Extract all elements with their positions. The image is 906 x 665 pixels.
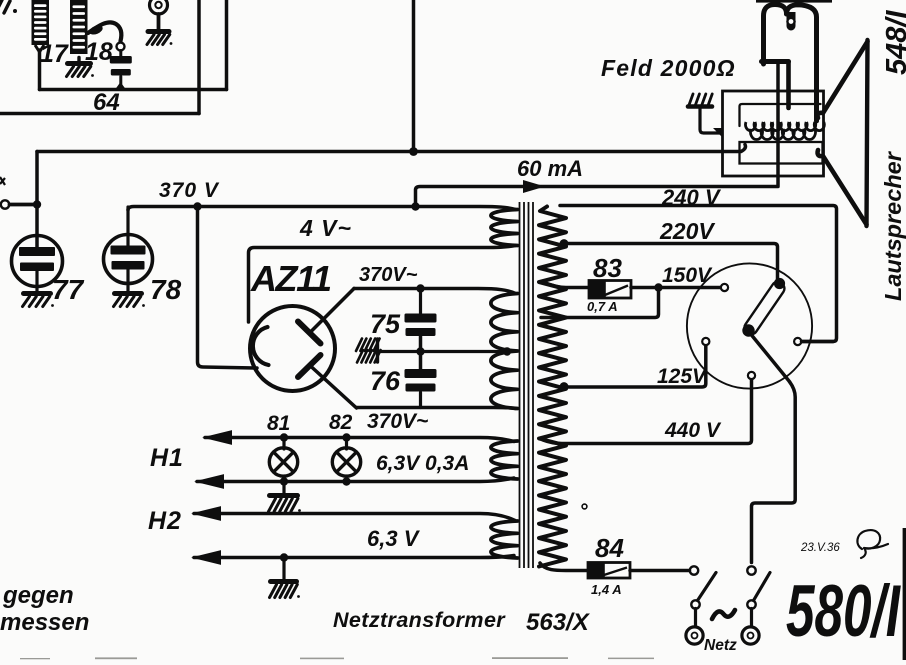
wire fuse 83 to 150V terminal <box>631 286 721 290</box>
terminal node above capacitor 64 <box>117 43 125 51</box>
terminal circle on yoke <box>787 18 794 25</box>
svg-text:H2: H2 <box>148 507 182 535</box>
node junction cap75 <box>416 284 424 292</box>
speaker magnet pot rectangle <box>723 91 824 176</box>
wire filament lead left <box>198 207 258 369</box>
ring terminal left Netz <box>686 627 703 644</box>
svg-text:370 V: 370 V <box>159 179 220 202</box>
svg-text:563/X: 563/X <box>526 609 591 636</box>
wire heater line H2 bottom <box>194 556 514 558</box>
speaker cone <box>818 42 868 119</box>
svg-text:75: 75 <box>370 309 401 339</box>
svg-text:78: 78 <box>150 274 182 305</box>
svg-text:17: 17 <box>40 40 69 68</box>
wire heater line H2 top <box>194 514 515 521</box>
svg-text:84: 84 <box>595 533 624 563</box>
yoke inner leg <box>786 62 791 109</box>
wire curved lead from resistor 18 to capacitor 64 <box>88 22 121 41</box>
transformer core laminations <box>519 202 521 568</box>
wire 4V winding bottom lead to tube <box>249 246 516 323</box>
svg-text:AZ11: AZ11 <box>250 258 332 299</box>
wire 110V tap line <box>543 380 752 444</box>
chassis hatched symbol <box>356 339 362 352</box>
fuse 83 <box>589 281 631 299</box>
svg-text:81: 81 <box>267 412 290 435</box>
ground at field coil <box>689 94 693 105</box>
wire 220V tap line <box>564 244 778 280</box>
voltage selector plate circle <box>687 263 812 388</box>
terminal 125V <box>702 338 709 345</box>
node centre tap on winding <box>503 347 511 355</box>
svg-text:240 V: 240 V <box>661 185 722 210</box>
wire 240V tap line <box>560 206 837 342</box>
bottom edge remnant dashes <box>20 657 654 659</box>
ring terminal right Netz <box>742 627 759 644</box>
node ground tap H2 <box>280 553 288 561</box>
label ~ mains <box>712 610 735 619</box>
tiny terminal speck <box>582 504 587 509</box>
plus mark at left edge <box>0 177 5 185</box>
op-amp AZ11 tube envelope <box>250 306 335 391</box>
node junction at cap 77 <box>33 200 41 208</box>
svg-text:76: 76 <box>370 366 401 396</box>
wire 125V tap line <box>564 346 706 388</box>
svg-text:H1: H1 <box>150 444 184 472</box>
capacitor C64 <box>110 56 132 64</box>
node junction 60mA branch <box>411 202 419 210</box>
capacitor C77 electrolytic <box>12 236 63 287</box>
voice coil pocket <box>787 12 796 31</box>
wire 370V~ lower anode line <box>357 407 516 408</box>
switch pole left <box>691 600 699 608</box>
node 125V tap <box>560 382 569 391</box>
capacitor C78 electrolytic <box>126 207 129 248</box>
wire 370V line <box>128 207 516 211</box>
wire 60 mA branch <box>416 63 779 204</box>
yoke step bar <box>762 59 789 64</box>
switch input terminal <box>690 566 698 574</box>
terminal with ground top <box>150 0 168 14</box>
node lamp82 bottom <box>342 477 350 485</box>
svg-text:Netztransformer: Netztransformer <box>333 608 506 632</box>
node junction centre line <box>416 347 424 355</box>
wire return tap L <box>541 288 659 318</box>
wire inner vertical <box>197 0 201 114</box>
node lamp82 top <box>342 433 350 441</box>
terminal 110V <box>748 372 755 379</box>
winding HV 2x370V (left middle) <box>491 294 518 409</box>
filament cathode crescent <box>253 327 269 365</box>
svg-text:548/I: 548/I <box>881 10 906 75</box>
wire tap to fuse 83 <box>543 282 589 288</box>
anode lead lower diagonal <box>311 366 357 408</box>
svg-text:440 V: 440 V <box>664 419 722 442</box>
svg-text:125V: 125V <box>657 365 708 388</box>
anode lead upper diagonal <box>311 289 355 333</box>
anode bar upper <box>298 322 321 344</box>
field coil winding loops <box>746 122 756 131</box>
ground under H2 line <box>271 579 297 584</box>
svg-text:150V: 150V <box>662 264 713 287</box>
rotor contact dot <box>774 278 785 289</box>
wire ground stem to pot <box>700 108 721 133</box>
winding 6.3V (left bottom) <box>491 521 518 558</box>
anode bar lower <box>298 355 321 377</box>
top edge line remnant <box>756 0 832 3</box>
svg-text:4 V~: 4 V~ <box>299 215 352 241</box>
wire rotor tail to switch <box>752 335 796 563</box>
svg-text:6,3 V: 6,3 V <box>367 526 421 551</box>
svg-text:60 mA: 60 mA <box>517 156 583 181</box>
svg-text:82: 82 <box>329 411 353 434</box>
node lamp81 top <box>280 433 288 441</box>
border line bottom right <box>903 528 906 660</box>
svg-text:Feld 2000Ω: Feld 2000Ω <box>601 55 736 81</box>
resistor 18 <box>70 0 88 54</box>
wire heater line H1 top <box>205 438 514 442</box>
wire B+ line y=151 <box>37 145 746 152</box>
wire 370V~ upper anode line <box>354 289 516 294</box>
wire centre tap line <box>419 337 423 370</box>
svg-text:messen: messen <box>0 609 89 636</box>
wire box bottom line <box>40 88 227 92</box>
winding 4V~ (left top) <box>491 210 518 246</box>
switch pole right <box>747 566 755 574</box>
winding 6.3V 0.3A (left lower) <box>491 441 518 479</box>
wire box right vertical <box>225 0 229 90</box>
wire heater line H1 bottom <box>197 478 514 482</box>
svg-text:23.V.36: 23.V.36 <box>800 542 840 554</box>
terminal 240V return <box>794 338 801 345</box>
ground under C77 <box>24 291 51 296</box>
capacitor C76 <box>405 369 437 378</box>
wire bottom lead to fuse 84 <box>540 563 589 571</box>
svg-text:Lautsprecher: Lautsprecher <box>880 150 906 301</box>
svg-text:370V~: 370V~ <box>367 410 428 433</box>
svg-text:220V: 220V <box>659 218 715 244</box>
svg-text:gegen: gegen <box>2 582 74 609</box>
svg-text:0,7 A: 0,7 A <box>587 299 618 314</box>
node junction after fuse <box>654 283 662 291</box>
svg-text:6,3V 0,3A: 6,3V 0,3A <box>376 452 469 475</box>
svg-text:580/I: 580/I <box>786 571 901 652</box>
ground under C78 <box>115 291 142 296</box>
svg-text:1,4 A: 1,4 A <box>591 582 622 597</box>
field coil former upper <box>740 104 821 126</box>
ground under lamp 81 <box>282 482 285 496</box>
svg-text:Netz: Netz <box>704 637 737 654</box>
node 220V tap <box>560 239 569 248</box>
winding primary zigzag (right) <box>539 207 566 567</box>
terminal at left edge <box>1 200 9 208</box>
terminal 150V <box>721 284 728 291</box>
field coil former lower <box>740 142 823 164</box>
wire left drop to terminal junction <box>35 152 39 251</box>
ground remnant top-left edge <box>0 0 10 13</box>
node lamp81 bottom <box>280 477 288 485</box>
wire resistor 17 to box bottom <box>38 50 42 90</box>
resistor 17 <box>32 0 50 45</box>
wire fuse 84 to switch terminal <box>630 569 690 573</box>
fuse 84 <box>588 563 630 579</box>
arrowhead 60 mA <box>523 180 545 193</box>
node 370V junction <box>193 202 201 210</box>
wire lower horizontal to left edge <box>0 112 199 116</box>
ground under resistor 18 <box>77 58 80 64</box>
wire right terminal stub <box>802 340 834 344</box>
svg-text:83: 83 <box>593 253 622 283</box>
rotor arm of selector <box>742 280 787 337</box>
svg-text:18: 18 <box>85 38 113 66</box>
svg-text:370V~: 370V~ <box>359 264 418 286</box>
capacitor C75 <box>419 289 422 315</box>
vertical feed from top edge <box>412 0 416 152</box>
lamp 81 <box>282 438 285 450</box>
signature squiggle <box>857 530 888 558</box>
svg-text:77: 77 <box>52 274 85 305</box>
node junction on B+ line <box>409 147 418 156</box>
speaker yoke boot <box>764 5 787 65</box>
lamp 82 <box>345 438 348 450</box>
